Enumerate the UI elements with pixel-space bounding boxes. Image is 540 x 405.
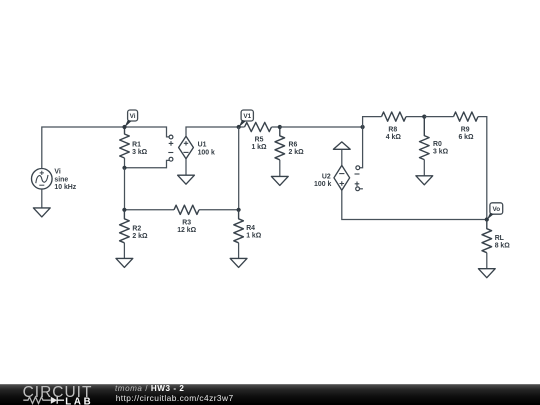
wire U1 minus input to node B <box>125 160 170 167</box>
svg-text:R3: R3 <box>182 220 191 227</box>
value label R4 1 kOhm <box>246 225 262 240</box>
svg-text:U2: U2 <box>322 173 331 180</box>
ground below R2 <box>116 258 133 267</box>
ground below R6 <box>271 176 288 185</box>
value label U1 100 k <box>198 142 215 157</box>
node B junction dot <box>122 166 126 170</box>
svg-text:Vi: Vi <box>130 113 136 120</box>
svg-text:R8: R8 <box>388 127 397 134</box>
wire R6 bottom to ground <box>279 160 281 177</box>
svg-text:R2: R2 <box>132 225 141 232</box>
ground below Vi <box>33 208 50 217</box>
value label R5 1 kOhm <box>251 137 267 152</box>
svg-text:tmoma / HW3 - 2: tmoma / HW3 - 2 <box>115 384 184 393</box>
svg-text:6 kΩ: 6 kΩ <box>458 134 474 141</box>
resistor R0 <box>420 117 430 160</box>
wire Vi top to node Vi <box>42 127 125 169</box>
svg-text:V1: V1 <box>243 113 251 120</box>
op-amp U1 dependent source (VCVS) <box>179 136 194 158</box>
svg-text:8 kΩ: 8 kΩ <box>495 243 511 250</box>
wire U1 output to node V1 <box>186 127 239 136</box>
wire node D to R9 <box>424 116 453 118</box>
svg-text:3 kΩ: 3 kΩ <box>433 149 449 156</box>
resistor RL <box>482 220 492 253</box>
svg-text:R9: R9 <box>461 127 470 134</box>
voltage source Vi <box>32 169 53 190</box>
minus sign U2 input <box>355 173 360 175</box>
terminal U2 plus input <box>356 187 360 191</box>
minus sign U1 input <box>168 152 173 154</box>
plus sign U1 input <box>169 141 174 146</box>
wire V1 to R5 <box>239 126 245 128</box>
wire rail at y=210: node E to R3 <box>124 209 174 211</box>
ground (rotated up) above U2 <box>333 142 350 149</box>
wire R1 bottom lead <box>124 158 126 168</box>
resistor R1 <box>120 127 130 158</box>
node C junction dot <box>278 125 282 129</box>
svg-text:2 kΩ: 2 kΩ <box>132 233 148 240</box>
wire R0 bottom to ground <box>423 160 425 176</box>
node flag Vo <box>490 203 503 214</box>
svg-text:4 kΩ: 4 kΩ <box>386 134 402 141</box>
wire node B down to node E <box>124 168 126 210</box>
node E junction dot <box>122 208 126 212</box>
node flag V1 <box>241 110 253 121</box>
dependent source U2 (VCVS) <box>334 165 350 190</box>
value label R3 12 kOhm <box>177 220 196 235</box>
value label Vi sine 10 kHz <box>54 168 76 191</box>
node F junction dot <box>237 208 241 212</box>
value label R2 2 kOhm <box>132 225 148 240</box>
node D junction dot <box>422 115 426 119</box>
node flag Vi <box>128 110 138 121</box>
svg-text:12 kΩ: 12 kΩ <box>177 227 196 234</box>
ground below RL <box>478 269 495 278</box>
node V1 junction dot <box>237 125 241 129</box>
svg-text:100 k: 100 k <box>198 149 215 156</box>
value label RL 8 kOhm <box>495 235 511 250</box>
logo diode <box>51 397 57 404</box>
wire RL bottom to ground <box>486 253 488 269</box>
terminal U2 minus input <box>356 166 360 170</box>
svg-text:LAB: LAB <box>65 396 93 405</box>
svg-text:100 k: 100 k <box>314 181 331 188</box>
wire U2 bottom to node Vo <box>342 190 487 219</box>
svg-text:Vo: Vo <box>492 206 500 213</box>
resistor R4 <box>234 210 244 243</box>
wire node C to junction G <box>280 126 363 128</box>
svg-text:Vi: Vi <box>54 168 60 175</box>
ground below R4 <box>230 258 247 267</box>
svg-text:R6: R6 <box>289 141 298 148</box>
svg-text:1 kΩ: 1 kΩ <box>251 144 267 151</box>
wire node Vi to U1 plus input <box>125 127 170 137</box>
ground below U1 <box>178 175 195 184</box>
resistor R8 <box>382 112 407 121</box>
svg-text:RL: RL <box>495 235 504 242</box>
svg-text:1 kΩ: 1 kΩ <box>246 232 262 239</box>
svg-text:R5: R5 <box>255 137 264 144</box>
node G junction dot <box>361 125 365 129</box>
wire node V1 down to node F <box>238 127 240 210</box>
value label R1 3 kOhm <box>132 142 148 157</box>
wire Vi bottom to ground <box>41 189 43 208</box>
wire jog G up to right rail <box>363 117 382 127</box>
svg-text:http://circuitlab.com/c4zr3w7: http://circuitlab.com/c4zr3w7 <box>116 393 234 403</box>
value label U2 100 k <box>314 173 331 188</box>
ground below R0 <box>416 176 433 185</box>
svg-text:R1: R1 <box>132 142 141 149</box>
svg-text:sine: sine <box>54 176 68 183</box>
terminal U1 plus input <box>169 135 173 139</box>
resistor R2 <box>120 210 130 243</box>
svg-text:U1: U1 <box>198 142 207 149</box>
wire R5 to node C <box>272 126 280 128</box>
logo resistor zigzag <box>23 397 51 404</box>
wire R3 to node F <box>199 209 239 211</box>
resistor R5 <box>245 122 272 131</box>
wire R9 to corner and down to node Vo <box>478 117 487 220</box>
svg-text:10 kHz: 10 kHz <box>54 184 76 191</box>
svg-text:2 kΩ: 2 kΩ <box>289 149 305 156</box>
wire U1 bottom to ground <box>185 159 187 176</box>
wire R2 bottom to ground <box>123 243 125 259</box>
wire U2 top to rotated ground <box>341 149 343 165</box>
resistor R3 <box>174 205 199 214</box>
wire G down to U2 minus input <box>360 127 363 168</box>
terminal U1 minus input <box>169 157 173 161</box>
value label R6 2 kOhm <box>289 141 305 156</box>
resistor R6 <box>275 127 285 160</box>
resistor R9 <box>454 112 479 121</box>
node Vo junction dot <box>485 217 489 221</box>
wire R4 bottom to ground <box>238 243 240 259</box>
plus sign U2 input <box>355 182 360 187</box>
value label R0 3 kOhm <box>433 141 449 156</box>
value label R8 4 kOhm <box>386 127 402 142</box>
wire R8 to node D <box>406 116 424 118</box>
node Vi junction dot <box>122 125 126 129</box>
svg-text:R4: R4 <box>246 225 255 232</box>
wire stub U2 plus input <box>360 188 363 190</box>
svg-text:3 kΩ: 3 kΩ <box>132 149 148 156</box>
svg-text:R0: R0 <box>433 141 442 148</box>
value label R9 6 kOhm <box>458 127 474 142</box>
